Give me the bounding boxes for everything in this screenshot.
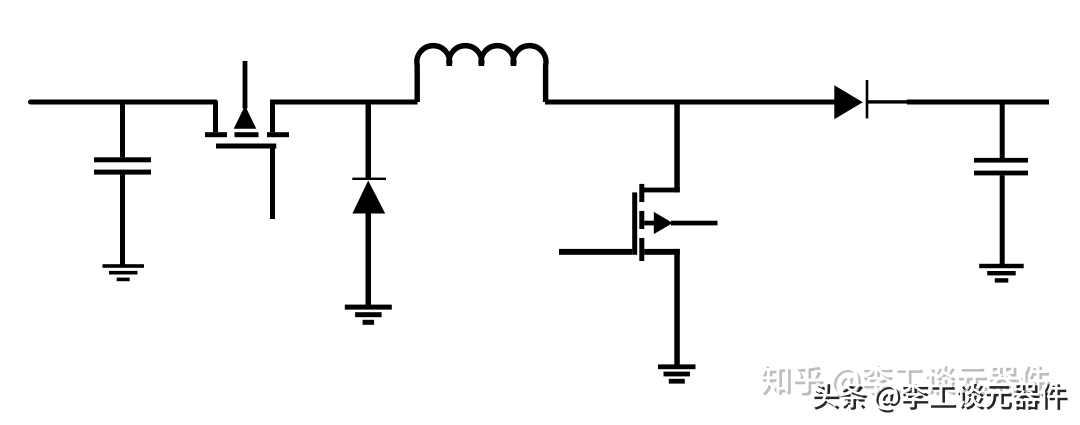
diode D2 (horizontal, output rectifier) — [834, 85, 863, 119]
wire: gate lead of Q1 — [270, 149, 275, 220]
transistor Q1 (high-side P-MOSFET) — [213, 102, 218, 132]
ground (C1) — [103, 264, 145, 268]
ground (D1) — [345, 305, 392, 310]
ground (C2) — [979, 264, 1024, 268]
capacitor C1 (input) — [120, 102, 125, 157]
diode D1 (vertical, cathode to switch wire) — [366, 102, 372, 178]
inductor L1 — [417, 46, 546, 102]
transistor Q2 (low-side N-MOSFET, rotated) — [674, 102, 680, 192]
capacitor C2 (output) — [1000, 102, 1005, 158]
wire: gate lead of Q2 — [559, 249, 632, 255]
wire: switch node between L1, Q2 drain and diode D2 anode — [545, 100, 835, 105]
wire: node between Q1 drain and inductor L1 / diode D1 — [270, 100, 418, 105]
wire: input rail from left edge to Q1 source — [28, 100, 218, 105]
wire: output rail from D2 cathode to C2 — [868, 100, 908, 103]
ground (Q2 source) — [658, 364, 696, 369]
